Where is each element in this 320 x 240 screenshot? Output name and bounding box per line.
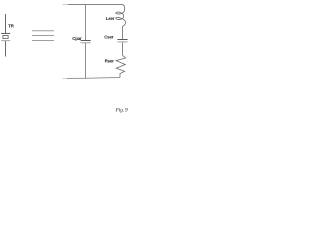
svg-text:Rser: Rser [105,58,115,63]
inductor Lser (loop coil) [116,10,126,28]
svg-text:Cpar: Cpar [72,36,82,41]
crystal TR top plate [1,32,10,34]
wire: top rail faint left end [63,3,69,5]
wire: Lser to Cser [121,29,123,40]
wire: Cpar branch upper [84,4,86,40]
capacitor Cser top plate [117,38,127,40]
svg-text:Lser: Lser [106,16,115,21]
wire: Cser to Rser [121,42,123,55]
svg-text:TR: TR [8,24,14,29]
svg-text:Fig. 9: Fig. 9 [115,107,128,113]
crystal TR body rectangle [3,35,8,38]
capacitor Cpar top plate [81,39,91,41]
wire: top right rounded corner [122,4,125,10]
wire: crystal bottom lead [5,41,7,56]
capacitor Cpar bottom plate [81,42,91,44]
wire: bottom rail faint left end [63,77,68,79]
wire: crystal top lead [5,14,7,33]
svg-text:Cser: Cser [104,35,114,40]
crystal TR bottom plate [1,40,10,42]
wire: bottom rail [67,77,120,78]
equivalence sign (three bars) [32,30,54,32]
wire: Cpar branch lower [84,43,86,78]
wire: top rail [68,3,122,5]
resistor Rser zigzag [116,55,126,77]
capacitor Cser bottom plate [117,41,127,43]
